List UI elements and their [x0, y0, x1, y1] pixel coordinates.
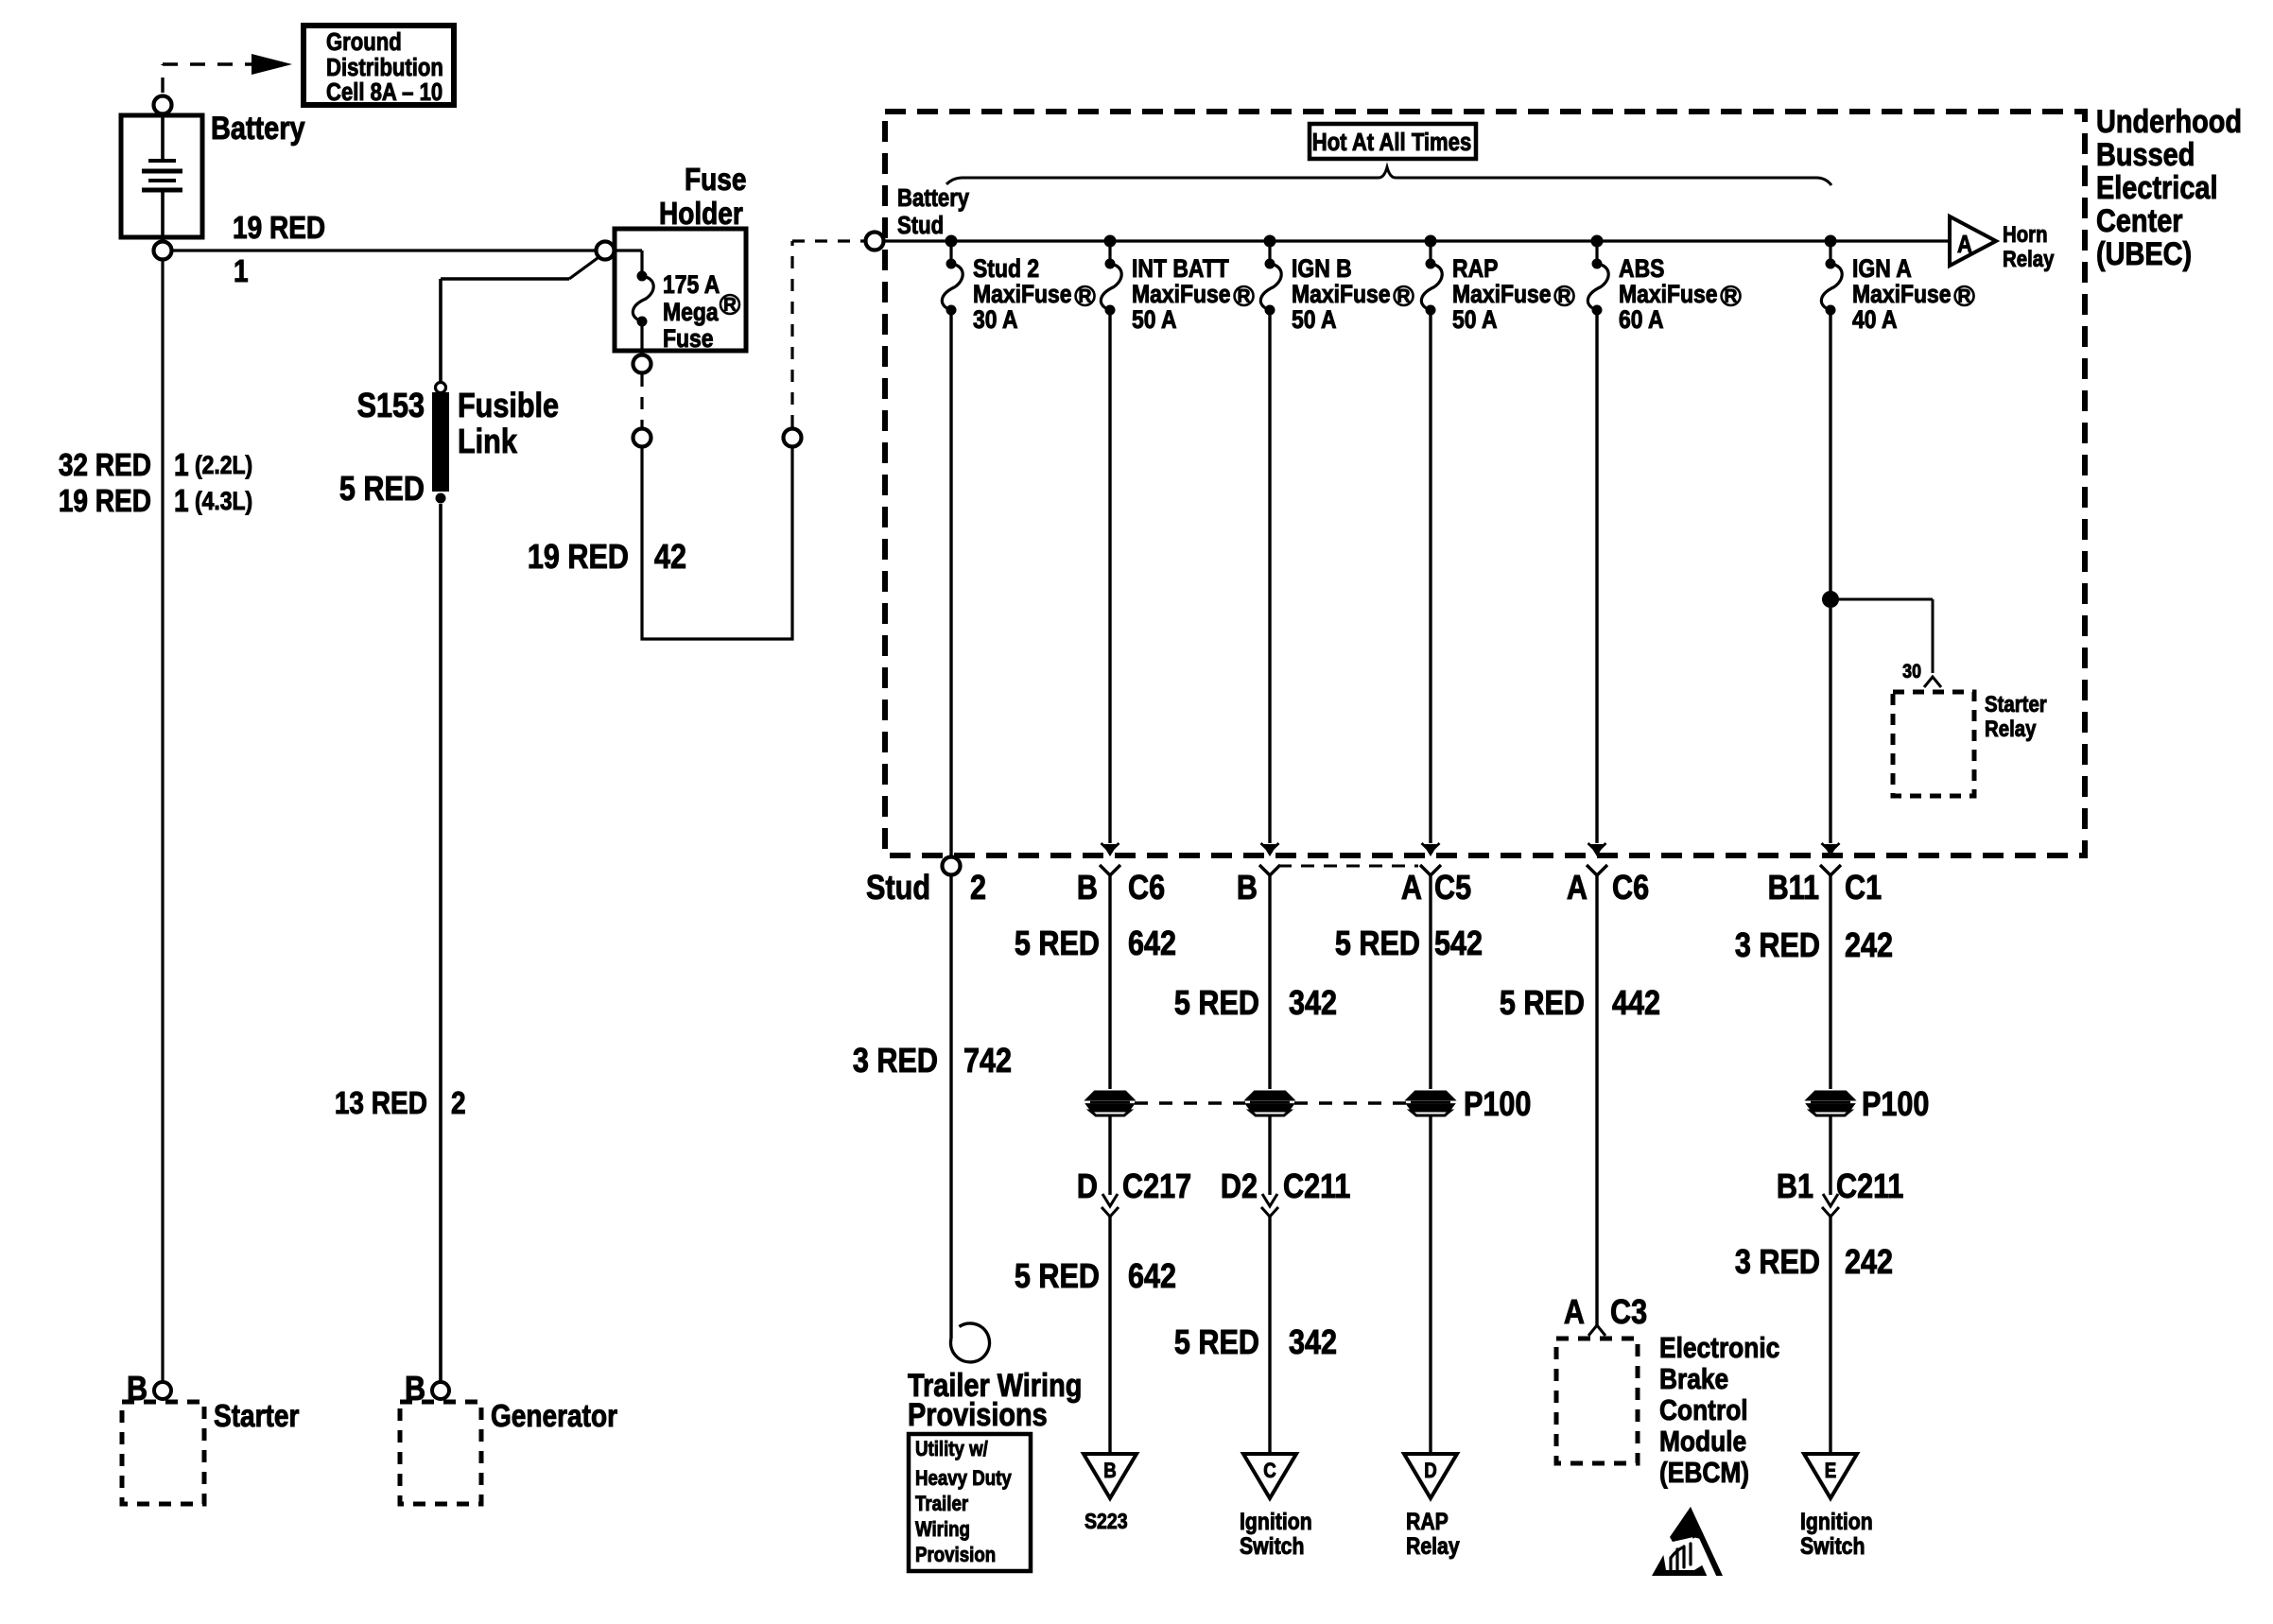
destination triangle E (ignition switch feed 2) — [1804, 1454, 1857, 1498]
inline connector circle (fuse holder output) — [633, 429, 651, 447]
label B (starter pin) — [127, 1371, 147, 1408]
battery positive terminal circle — [154, 96, 172, 114]
wire stub bus to fuse (Stud 2) — [949, 241, 952, 262]
svg-text:Underhood: Underhood — [2096, 103, 2242, 140]
wire branch to starter relay — [1838, 599, 1933, 673]
svg-text:Electrical: Electrical — [2096, 169, 2218, 206]
svg-text:Battery: Battery — [897, 184, 970, 212]
label S223 — [1084, 1510, 1128, 1534]
label Ignition Switch (IGN B) — [1240, 1508, 1312, 1559]
label P100 (RAP) — [1464, 1086, 1531, 1124]
connector chevron below boundary (INT BATT) — [1100, 865, 1120, 875]
svg-text:175 A: 175 A — [663, 270, 720, 299]
wire generator feed down — [439, 279, 442, 382]
svg-text:RAP: RAP — [1406, 1508, 1449, 1534]
grommet P100 (IGN A) — [1808, 1092, 1853, 1115]
svg-text:C: C — [1263, 1460, 1276, 1483]
svg-text:ABS: ABS — [1619, 254, 1664, 283]
svg-text:Relay: Relay — [1406, 1532, 1460, 1559]
UBEC dashed boundary box — [885, 112, 2085, 855]
fuse RAP 50 A MaxiFuse element — [1421, 259, 1442, 316]
svg-text:5 RED: 5 RED — [1500, 985, 1585, 1023]
label Fusible Link — [458, 388, 559, 461]
label S153 — [357, 388, 425, 425]
wire fusible link to generator — [439, 504, 442, 1381]
EBCM dashed box — [1556, 1339, 1638, 1463]
svg-text:Control: Control — [1659, 1394, 1748, 1426]
label 3 RED | 242 (upper) — [1735, 927, 1893, 965]
svg-text:R: R — [1238, 287, 1251, 307]
svg-text:R: R — [723, 296, 737, 316]
svg-text:Center: Center — [2096, 202, 2183, 239]
label Underhood Bussed Electrical Center (UBEC) — [2096, 103, 2242, 272]
svg-text:B: B — [1103, 1460, 1117, 1483]
label 5 RED | 342 (lower) — [1174, 1324, 1337, 1362]
svg-text:S153: S153 — [357, 388, 425, 425]
svg-text:50 A: 50 A — [1292, 305, 1337, 334]
connector chevron below boundary (IGN A) — [1820, 865, 1841, 875]
bus junction dot (INT BATT) — [1104, 235, 1117, 248]
splice destination triangle B (S223) — [1084, 1454, 1136, 1498]
label 5 RED | 642 (upper) — [1015, 925, 1176, 963]
splice dot below fusible link — [436, 493, 446, 504]
starter dashed box — [122, 1402, 204, 1504]
svg-text:642: 642 — [1128, 1258, 1176, 1296]
svg-text:(2.2L): (2.2L) — [195, 451, 252, 479]
175 A Mega fuse element — [633, 271, 653, 327]
battery stud circle on UBEC boundary — [866, 233, 884, 251]
label 19 RED | 1 (4.3L) — [59, 484, 252, 519]
svg-text:Generator: Generator — [491, 1399, 617, 1434]
ESD sensitive device symbol — [1640, 1507, 1723, 1580]
svg-text:A: A — [1401, 870, 1422, 907]
svg-text:Fuse: Fuse — [663, 324, 714, 353]
label Electronic Brake Control Module (EBCM) — [1659, 1332, 1779, 1489]
svg-text:Stud: Stud — [866, 870, 930, 907]
svg-text:Brake: Brake — [1659, 1363, 1728, 1395]
fuse holder box — [615, 229, 746, 351]
svg-text:Wiring: Wiring — [915, 1519, 970, 1542]
svg-text:2: 2 — [970, 870, 986, 907]
label fuse INT BATT MaxiFuse(R) 50 A — [1132, 254, 1254, 334]
svg-text:C6: C6 — [1612, 870, 1649, 907]
bus junction dot (IGN B) — [1264, 235, 1276, 248]
label B (IGN B pin) — [1237, 870, 1258, 907]
label 3 RED | 242 (lower) — [1735, 1244, 1893, 1282]
svg-text:Relay: Relay — [1985, 716, 2037, 741]
label Trailer Wiring Provisions — [908, 1367, 1082, 1433]
wire INT BATT below boundary — [1108, 875, 1111, 1089]
main bus wire inside UBEC — [884, 239, 1950, 242]
svg-text:B: B — [1237, 870, 1258, 907]
svg-text:(UBEC): (UBEC) — [2096, 235, 2192, 272]
svg-text:INT BATT: INT BATT — [1132, 254, 1229, 283]
bus junction dot (IGN A) — [1825, 235, 1837, 248]
svg-text:IGN B: IGN B — [1292, 254, 1352, 283]
wire stub bus to fuse (INT BATT) — [1108, 241, 1111, 262]
svg-text:Provisions: Provisions — [908, 1396, 1048, 1433]
connector chevron below boundary (ABS) — [1587, 865, 1607, 875]
label Fuse Holder — [659, 163, 746, 232]
svg-text:50 A: 50 A — [1132, 305, 1177, 334]
svg-text:242: 242 — [1845, 1244, 1893, 1282]
svg-text:A: A — [1564, 1294, 1585, 1332]
label Starter — [214, 1399, 299, 1434]
svg-text:3 RED: 3 RED — [853, 1043, 938, 1080]
svg-text:Link: Link — [458, 423, 517, 461]
svg-text:3 RED: 3 RED — [1735, 1244, 1820, 1282]
arrowhead to ground distribution cell — [252, 54, 292, 75]
wire IGN A feeder to junction — [1829, 314, 1831, 592]
svg-text:P100: P100 — [1464, 1086, 1531, 1124]
svg-text:E: E — [1825, 1460, 1836, 1483]
arrowhead IGN B feeder at UBEC boundary — [1261, 843, 1279, 856]
label 19 RED circuit 1 (battery feed) — [233, 211, 325, 246]
label fuse IGN B MaxiFuse(R) 50 A — [1292, 254, 1414, 334]
dashed wire below fuse holder — [640, 374, 643, 427]
arrowhead RAP feeder at UBEC boundary — [1422, 843, 1440, 856]
svg-text:Ignition: Ignition — [1240, 1508, 1312, 1534]
svg-text:5 RED: 5 RED — [1174, 1324, 1259, 1362]
wire Stud2 feeder down to stud connector — [949, 314, 952, 857]
label D2 | C211 — [1221, 1168, 1351, 1206]
fuse holder output circle — [633, 355, 651, 373]
starter relay pin 30 chevron — [1924, 677, 1941, 687]
svg-text:742: 742 — [963, 1043, 1012, 1080]
label fuse IGN A MaxiFuse(R) 40 A — [1852, 254, 1974, 334]
svg-text:542: 542 — [1434, 925, 1483, 963]
wire IGN A junction down — [1829, 608, 1831, 843]
wire battery down to starter — [161, 260, 164, 1381]
label B | C6 (INT BATT pin) — [1077, 870, 1165, 907]
svg-text:13 RED: 13 RED — [335, 1086, 427, 1121]
bus junction dot (RAP) — [1425, 235, 1437, 248]
fuse IGN A 40 A MaxiFuse element — [1821, 259, 1842, 316]
svg-text:IGN A: IGN A — [1852, 254, 1912, 283]
label B11 | C1 (IGN A pin) — [1768, 870, 1883, 907]
wire stub bus to fuse (IGN A) — [1829, 241, 1831, 262]
generator pin B circle — [432, 1382, 449, 1399]
fuse holder input circle — [597, 242, 615, 260]
battery internal symbol — [142, 115, 182, 237]
svg-text:R: R — [1397, 287, 1411, 307]
wire INT BATT feeder down — [1108, 314, 1111, 843]
svg-text:S223: S223 — [1084, 1510, 1128, 1534]
label fuse Stud 2 MaxiFuse(R) 30 A — [973, 254, 1095, 334]
svg-text:Module: Module — [1659, 1425, 1746, 1458]
svg-text:Battery: Battery — [211, 110, 305, 147]
wire RAP feeder down — [1429, 314, 1431, 843]
label 5 RED | 642 (lower) — [1015, 1258, 1176, 1296]
fuse INT BATT 50 A MaxiFuse element — [1101, 259, 1121, 316]
svg-text:B11: B11 — [1768, 870, 1819, 907]
bus junction dot (ABS) — [1591, 235, 1604, 248]
svg-text:P100: P100 — [1862, 1086, 1929, 1124]
fuse Stud 2 30 A MaxiFuse element — [942, 259, 963, 316]
fine dashed connector line C5 — [1278, 865, 1418, 868]
label 5 RED (fusible link) — [339, 471, 425, 509]
svg-text:Switch: Switch — [1240, 1532, 1304, 1559]
junction dot IGN A / starter relay branch — [1822, 591, 1839, 608]
svg-text:(4.3L): (4.3L) — [195, 487, 252, 515]
label 5 RED | 442 — [1500, 985, 1660, 1023]
fusible link S153 body — [432, 392, 449, 492]
EBCM pin chevron A — [1588, 1325, 1605, 1336]
svg-text:B: B — [1077, 870, 1098, 907]
svg-text:Distribution: Distribution — [326, 54, 443, 81]
label A | C3 (EBCM pin) — [1564, 1294, 1647, 1332]
svg-text:Provision: Provision — [915, 1545, 996, 1567]
horn relay triangle pin A — [1950, 216, 1996, 266]
label 32 RED | 1 (2.2L) — [59, 448, 252, 483]
wire RAP grommet to RAP relay triangle — [1429, 1114, 1431, 1454]
grommet P100 (RAP) — [1408, 1092, 1453, 1115]
wire IGN A to ignition switch — [1829, 1217, 1831, 1454]
label Horn Relay — [2003, 221, 2055, 271]
svg-text:MaxiFuse: MaxiFuse — [1852, 280, 1952, 308]
grommet P100 (INT BATT) — [1087, 1092, 1133, 1115]
wire stub bus to fuse (ABS) — [1595, 241, 1598, 262]
svg-text:Starter: Starter — [1985, 691, 2047, 717]
svg-text:Stud 2: Stud 2 — [973, 254, 1039, 283]
svg-text:32 RED: 32 RED — [59, 448, 151, 483]
generator dashed box — [400, 1402, 481, 1504]
svg-text:Holder: Holder — [659, 197, 743, 232]
dashed link between grommets — [1135, 1101, 1406, 1104]
svg-text:D2: D2 — [1221, 1168, 1258, 1206]
label Battery — [211, 110, 305, 147]
ground distribution callout box (Ground Distribution Cell 8A-10) — [304, 26, 454, 106]
svg-text:19 RED: 19 RED — [59, 484, 151, 519]
svg-text:3 RED: 3 RED — [1735, 927, 1820, 965]
svg-text:C211: C211 — [1283, 1168, 1350, 1206]
svg-text:5 RED: 5 RED — [1174, 985, 1259, 1023]
svg-text:2: 2 — [451, 1086, 466, 1121]
wire INT BATT to S223 — [1108, 1217, 1111, 1454]
svg-text:Utility w/: Utility w/ — [915, 1439, 988, 1461]
wire ABS below boundary — [1595, 875, 1598, 1325]
svg-text:42: 42 — [654, 539, 686, 577]
svg-text:Heavy Duty: Heavy Duty — [915, 1468, 1012, 1491]
svg-text:Fusible: Fusible — [458, 388, 559, 425]
svg-text:(EBCM): (EBCM) — [1659, 1457, 1749, 1489]
connector chevron below boundary (IGN B) — [1259, 865, 1280, 875]
inline connector circle (battery stud side) — [784, 429, 802, 447]
label D | C217 — [1077, 1168, 1191, 1206]
svg-text:Stud: Stud — [897, 212, 944, 239]
label 13 RED | 2 — [335, 1086, 466, 1121]
brace over hot-at-all-times bus — [946, 167, 1831, 185]
label Generator — [491, 1399, 617, 1434]
svg-text:40 A: 40 A — [1852, 305, 1898, 334]
wire 42 loop (down, right, up) — [642, 447, 792, 639]
svg-text:5 RED: 5 RED — [1335, 925, 1420, 963]
wire IGN B feeder down — [1268, 314, 1271, 843]
label 3 RED | 742 — [853, 1043, 1012, 1080]
svg-text:A: A — [1567, 870, 1588, 907]
svg-text:1: 1 — [174, 484, 189, 519]
label Stud | 2 — [866, 870, 986, 907]
svg-text:342: 342 — [1289, 985, 1337, 1023]
svg-text:R: R — [1958, 287, 1971, 307]
connector C211 crossing (IGN B) — [1261, 1114, 1278, 1217]
svg-text:442: 442 — [1612, 985, 1660, 1023]
arrowhead ABS feeder at UBEC boundary — [1588, 843, 1606, 856]
battery box — [121, 115, 202, 237]
label P100 (IGN A) — [1862, 1086, 1929, 1124]
wire RAP below boundary — [1429, 875, 1431, 1089]
label 19 RED | 42 — [528, 539, 686, 577]
svg-text:1: 1 — [174, 448, 189, 483]
fuse IGN B 50 A MaxiFuse element — [1260, 259, 1281, 316]
connector chevron below boundary (RAP) — [1420, 865, 1441, 875]
label 1 — [234, 254, 249, 289]
svg-text:242: 242 — [1845, 927, 1893, 965]
label fuse ABS MaxiFuse(R) 60 A — [1619, 254, 1741, 334]
svg-text:50 A: 50 A — [1452, 305, 1498, 334]
starter relay dashed box — [1893, 692, 1974, 796]
svg-text:MaxiFuse: MaxiFuse — [1292, 280, 1391, 308]
Hot At All Times callout box — [1310, 124, 1476, 159]
connector C211 crossing (IGN A) — [1822, 1114, 1839, 1217]
svg-text:Mega: Mega — [663, 298, 720, 326]
destination triangle C (ignition switch feed) — [1243, 1454, 1296, 1498]
svg-text:1: 1 — [234, 254, 249, 289]
wire IGN A below boundary — [1829, 875, 1831, 1089]
svg-text:C217: C217 — [1122, 1168, 1191, 1206]
label A | C6 (ABS pin) — [1567, 870, 1649, 907]
arrowhead IGN A feeder at UBEC boundary — [1822, 843, 1840, 856]
svg-text:Relay: Relay — [2003, 246, 2055, 271]
label 5 RED | 342 (upper) — [1174, 985, 1337, 1023]
svg-text:5 RED: 5 RED — [1015, 925, 1100, 963]
svg-text:Ground: Ground — [326, 28, 402, 56]
svg-text:A: A — [1957, 231, 1972, 258]
svg-text:Switch: Switch — [1800, 1532, 1865, 1559]
svg-text:B1: B1 — [1777, 1168, 1813, 1206]
label Battery Stud — [897, 184, 970, 239]
wire battery to fuse holder — [172, 249, 596, 251]
svg-text:642: 642 — [1128, 925, 1176, 963]
svg-text:19 RED: 19 RED — [233, 211, 325, 246]
label Ignition Switch (IGN A) — [1800, 1508, 1873, 1559]
svg-text:R: R — [1079, 287, 1092, 307]
svg-text:MaxiFuse: MaxiFuse — [973, 280, 1072, 308]
svg-text:MaxiFuse: MaxiFuse — [1452, 280, 1552, 308]
label 5 RED | 542 — [1335, 925, 1483, 963]
wire stub bus to fuse (IGN B) — [1268, 241, 1271, 262]
label 175 A Mega(R) Fuse — [663, 270, 739, 353]
wire Stud2 below circle — [949, 875, 952, 1339]
svg-text:C1: C1 — [1845, 870, 1882, 907]
svg-text:C6: C6 — [1128, 870, 1165, 907]
svg-text:19 RED: 19 RED — [528, 539, 629, 577]
splice S153 fusible link top circle — [436, 383, 446, 393]
diagonal wire from fuse holder node — [441, 258, 598, 279]
label 30 — [1902, 661, 1921, 683]
fuse ABS 60 A MaxiFuse element — [1588, 259, 1608, 316]
dashed reference wire from battery to ground distribution cell — [163, 64, 252, 93]
battery output node circle — [154, 242, 172, 260]
wire IGN B below boundary — [1268, 875, 1271, 1089]
svg-text:60 A: 60 A — [1619, 305, 1664, 334]
svg-text:Trailer: Trailer — [915, 1494, 968, 1516]
svg-text:D: D — [1424, 1460, 1437, 1483]
svg-text:MaxiFuse: MaxiFuse — [1132, 280, 1231, 308]
utility trailer wiring note box — [909, 1434, 1031, 1571]
starter pin B circle — [154, 1382, 171, 1399]
label B (generator pin) — [405, 1371, 425, 1408]
wire IGN B to ignition switch — [1268, 1217, 1271, 1454]
svg-text:C3: C3 — [1610, 1294, 1647, 1332]
dashed wire up to battery stud — [792, 241, 864, 427]
svg-text:Horn: Horn — [2003, 221, 2048, 247]
svg-text:5 RED: 5 RED — [339, 471, 425, 509]
trailer wiring provision coiled wire — [951, 1323, 990, 1362]
svg-text:Electronic: Electronic — [1659, 1332, 1779, 1364]
svg-text:Cell 8A – 10: Cell 8A – 10 — [326, 78, 442, 106]
svg-text:R: R — [1725, 287, 1738, 307]
arrowhead INT BATT feeder at UBEC boundary — [1102, 843, 1119, 856]
svg-text:R: R — [1558, 287, 1571, 307]
wire ABS feeder down — [1595, 314, 1598, 843]
destination triangle D (RAP relay) — [1404, 1454, 1457, 1498]
label B1 | C211 — [1777, 1168, 1904, 1206]
grommet P100 (IGN B) — [1247, 1092, 1293, 1115]
svg-text:C5: C5 — [1434, 870, 1471, 907]
svg-text:5 RED: 5 RED — [1015, 1258, 1100, 1296]
bus junction dot (Stud 2) — [946, 235, 958, 248]
stud pass-through circle (Stud 2) — [943, 857, 961, 875]
wire into mega fuse — [615, 251, 642, 274]
svg-text:30 A: 30 A — [973, 305, 1018, 334]
svg-text:Fuse: Fuse — [685, 163, 746, 198]
svg-text:C211: C211 — [1836, 1168, 1903, 1206]
svg-text:Starter: Starter — [214, 1399, 299, 1434]
label Starter Relay — [1985, 691, 2047, 741]
svg-text:Hot At All Times: Hot At All Times — [1312, 129, 1471, 156]
svg-text:30: 30 — [1902, 661, 1921, 683]
svg-text:342: 342 — [1289, 1324, 1337, 1362]
svg-text:Bussed: Bussed — [2096, 136, 2195, 173]
svg-text:D: D — [1077, 1168, 1098, 1206]
svg-text:RAP: RAP — [1452, 254, 1498, 283]
label RAP Relay — [1406, 1508, 1460, 1559]
label fuse RAP MaxiFuse(R) 50 A — [1452, 254, 1574, 334]
svg-text:MaxiFuse: MaxiFuse — [1619, 280, 1718, 308]
wire mega fuse to holder bottom — [640, 326, 643, 351]
svg-text:Ignition: Ignition — [1800, 1508, 1873, 1534]
connector C217 crossing (INT BATT) — [1102, 1114, 1119, 1217]
wire stub bus to fuse (RAP) — [1429, 241, 1431, 262]
label A | C5 (RAP pin) — [1401, 870, 1471, 907]
